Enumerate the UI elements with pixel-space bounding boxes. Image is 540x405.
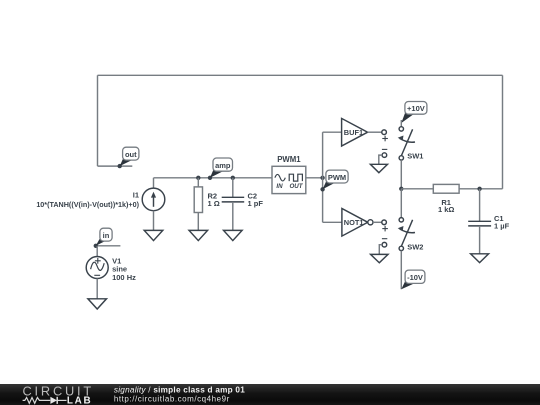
- flag amp: [210, 158, 233, 178]
- buffer BUF1: [342, 118, 368, 146]
- ground: below C1: [471, 254, 489, 263]
- wire: C1 bottom stub: [479, 226, 481, 254]
- label SW1 -: [382, 148, 387, 150]
- ground: SW2 control: [371, 254, 388, 262]
- ground: below C2: [224, 230, 243, 240]
- wire: BUF1 input stub: [323, 131, 342, 133]
- wire: V1 top stub: [96, 246, 98, 257]
- voltage source V1: [86, 257, 108, 279]
- logo diode: [50, 397, 66, 404]
- flag in: [96, 228, 112, 246]
- junction: C1 node: [477, 187, 481, 191]
- footer bar: [0, 384, 540, 405]
- wire: out net left vertical: [97, 75, 99, 166]
- capacitor C1: [468, 221, 491, 226]
- wire: NOT1 input stub: [323, 221, 342, 223]
- switch SW1: [398, 127, 415, 160]
- ground: below R2: [189, 230, 208, 240]
- wire: out net top horizontal: [98, 74, 503, 76]
- wire: I1 bottom stub: [153, 211, 155, 231]
- junction: in flag attach: [94, 244, 98, 248]
- behavioral block PWM1: [272, 166, 306, 193]
- wire: node to SW2: [400, 189, 402, 218]
- wire: node to R1: [401, 188, 433, 190]
- wire: in flag stub: [94, 245, 120, 247]
- terminal: SW1 - control: [382, 153, 387, 158]
- label SW2 +: [382, 226, 388, 232]
- terminal: SW2 + control: [382, 220, 387, 225]
- svg-text:LAB: LAB: [67, 396, 92, 405]
- flag -10V: [401, 270, 425, 289]
- svg-text:signality / simple class d amp: signality / simple class d amp 01: [114, 386, 245, 395]
- junction: PWM node: [320, 176, 324, 180]
- switch SW2: [398, 218, 415, 251]
- terminal: SW1 + control: [382, 130, 387, 135]
- resistor R2: [194, 187, 202, 213]
- wire: R2 bottom stub: [197, 213, 199, 231]
- flag PWM: [323, 170, 349, 189]
- wire: SW2 - to ground: [379, 245, 382, 255]
- wire: out net right vertical: [502, 75, 504, 189]
- wire: PWM vertical: [322, 132, 324, 222]
- svg-text:http://circuitlab.com/cq4he9r: http://circuitlab.com/cq4he9r: [114, 395, 230, 404]
- junction: R2 node: [196, 176, 200, 180]
- ground: SW1 control: [370, 164, 387, 172]
- wire: amp node horizontal: [154, 177, 273, 179]
- wire: C2 bottom stub: [232, 202, 234, 231]
- wire: out flag stub: [98, 165, 133, 167]
- label SW2 -: [382, 238, 387, 240]
- resistor R1: [433, 184, 459, 193]
- wire: I1 top stub: [153, 178, 155, 188]
- wire: +10V to SW1: [400, 120, 402, 127]
- junction: PWM flag attach: [320, 187, 324, 191]
- capacitor C2: [222, 197, 245, 202]
- wire: PWM1 output: [306, 177, 323, 179]
- junction: C2 node: [231, 176, 235, 180]
- wire: SW1 to output node: [400, 160, 402, 189]
- terminal: SW2 - control: [382, 242, 387, 247]
- wire: R1 to feedback corner: [459, 188, 502, 190]
- wire: C1 top stub: [479, 189, 481, 222]
- inverter NOT1: [342, 209, 373, 237]
- junction: amp flag attach: [208, 176, 212, 180]
- wire: SW1 - to ground: [379, 155, 382, 164]
- flag out: [120, 147, 139, 166]
- wire: V1 bottom stub: [96, 279, 98, 299]
- wire: NOT1 output: [373, 221, 382, 223]
- wire: R2 top stub: [197, 178, 199, 187]
- logo resistor zigzag: [23, 398, 51, 404]
- junction: out flag attach: [118, 164, 122, 168]
- wire: SW2 to -10V: [400, 251, 402, 290]
- ground: below V1: [88, 299, 107, 309]
- wire: BUF1 output: [368, 131, 382, 133]
- junction: output node left: [399, 187, 403, 191]
- label SW1 +: [382, 136, 388, 142]
- current source I1: [142, 188, 165, 211]
- ground: below I1: [144, 230, 163, 240]
- flag +10V: [401, 102, 427, 124]
- wire: C2 top stub: [232, 178, 234, 198]
